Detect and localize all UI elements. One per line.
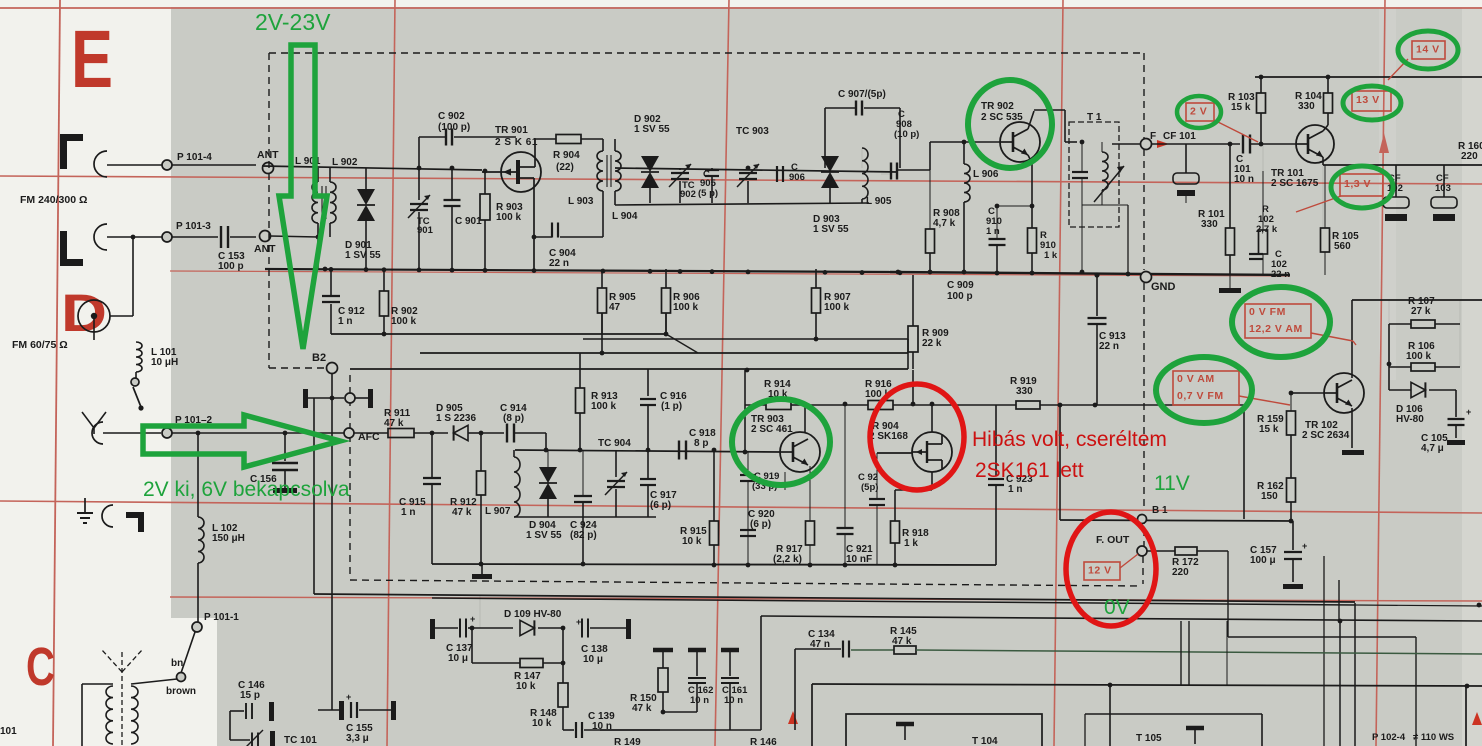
svg-text:12 V: 12 V (1088, 564, 1112, 576)
svg-text:330: 330 (1298, 101, 1315, 112)
svg-text:15 k: 15 k (1259, 424, 1279, 435)
svg-text:+: + (1302, 541, 1307, 551)
svg-text:brown: brown (166, 686, 196, 697)
svg-text:100 μ: 100 μ (1250, 555, 1276, 566)
svg-text:+: + (576, 617, 581, 627)
svg-text:2 V: 2 V (1190, 105, 1207, 117)
svg-text:(6 p): (6 p) (750, 519, 771, 530)
svg-text:220: 220 (1461, 151, 1478, 162)
svg-text:+: + (1466, 407, 1471, 417)
svg-text:10 n: 10 n (1234, 174, 1254, 185)
svg-text:C 907/(5p): C 907/(5p) (838, 89, 886, 100)
svg-text:P 101-3: P 101-3 (176, 221, 211, 232)
svg-text:P 101-4: P 101-4 (177, 152, 212, 163)
svg-text:902: 902 (680, 189, 696, 200)
svg-text:T 104: T 104 (972, 736, 998, 746)
svg-text:2 SC 1675: 2 SC 1675 (1271, 178, 1319, 189)
svg-text:(100 p): (100 p) (438, 122, 470, 133)
svg-text:10 k: 10 k (682, 536, 702, 547)
svg-text:4,7 k: 4,7 k (933, 218, 956, 229)
svg-text:100 k: 100 k (391, 316, 416, 327)
svg-text:906: 906 (789, 172, 805, 183)
svg-text:B2: B2 (312, 352, 326, 364)
svg-text:1 k: 1 k (1044, 250, 1058, 261)
svg-text:100 p: 100 p (218, 261, 244, 272)
svg-text:FM 240/300 Ω: FM 240/300 Ω (20, 194, 87, 206)
svg-text:901: 901 (417, 225, 434, 236)
svg-text:E: E (71, 14, 113, 105)
svg-text:1 n: 1 n (338, 316, 352, 327)
svg-text:ANT: ANT (254, 243, 276, 255)
svg-text:100 k: 100 k (673, 302, 698, 313)
svg-text:bn: bn (171, 658, 183, 669)
svg-text:12,2 V AM: 12,2 V AM (1249, 323, 1303, 335)
svg-text:D 109 HV-80: D 109 HV-80 (504, 609, 562, 620)
svg-text:(5 p): (5 p) (698, 188, 718, 199)
svg-text:1 SV 55: 1 SV 55 (813, 224, 849, 235)
svg-text:0 V FM: 0 V FM (1249, 306, 1286, 318)
svg-text:2V ki, 6V bekapcsolva: 2V ki, 6V bekapcsolva (143, 478, 350, 501)
svg-text:100 k: 100 k (1406, 351, 1431, 362)
svg-text:1 S 2236: 1 S 2236 (436, 413, 476, 424)
svg-text:TC 101: TC 101 (284, 735, 317, 746)
svg-text:P 101-1: P 101-1 (204, 612, 239, 623)
svg-text:47 k: 47 k (892, 636, 912, 647)
svg-text:10 k: 10 k (532, 718, 552, 729)
svg-text:47 k: 47 k (632, 703, 652, 714)
svg-text:47 k: 47 k (384, 418, 404, 429)
svg-text:2SK161 lett: 2SK161 lett (975, 459, 1084, 482)
svg-text:2 SC 535: 2 SC 535 (981, 112, 1023, 123)
svg-text:L 905: L 905 (866, 196, 892, 207)
svg-text:R 146: R 146 (750, 737, 777, 746)
svg-text:10 n: 10 n (690, 695, 709, 706)
svg-text:+: + (470, 614, 475, 624)
svg-text:1 n: 1 n (986, 226, 1000, 237)
svg-text:1 SV 55: 1 SV 55 (634, 124, 670, 135)
svg-text:22 n: 22 n (1271, 269, 1290, 280)
svg-text:0,7 V FM: 0,7 V FM (1177, 390, 1224, 402)
svg-text:10 μ: 10 μ (448, 653, 468, 664)
svg-text:C 909: C 909 (947, 280, 974, 291)
svg-text:B 1: B 1 (1152, 505, 1168, 516)
svg-text:150: 150 (1261, 491, 1278, 502)
svg-text:(5p): (5p) (861, 482, 878, 493)
svg-text:1 SV 55: 1 SV 55 (345, 250, 381, 261)
svg-text:2V-23V: 2V-23V (255, 9, 331, 35)
svg-text:15 p: 15 p (240, 690, 260, 701)
svg-text:100 k: 100 k (591, 401, 616, 412)
svg-text:P 102-4: P 102-4 (1372, 732, 1406, 743)
svg-text:330: 330 (1016, 386, 1033, 397)
svg-text:L 906: L 906 (973, 169, 999, 180)
svg-text:22 n: 22 n (1099, 341, 1119, 352)
svg-text:Hibás volt, cseréltem: Hibás volt, cseréltem (972, 428, 1167, 451)
svg-text:27 k: 27 k (1411, 306, 1431, 317)
svg-text:T 105: T 105 (1136, 733, 1162, 744)
svg-text:47 k: 47 k (452, 507, 472, 518)
svg-text:TC 904: TC 904 (598, 438, 631, 449)
svg-text:100 p: 100 p (947, 291, 973, 302)
svg-text:10 k: 10 k (516, 681, 536, 692)
svg-text:150 μH: 150 μH (212, 533, 245, 544)
svg-text:HV-80: HV-80 (1396, 414, 1424, 425)
svg-text:1,3 V: 1,3 V (1344, 178, 1371, 190)
svg-text:22 n: 22 n (549, 258, 569, 269)
svg-text:GND: GND (1151, 281, 1176, 293)
svg-text:R 149: R 149 (614, 737, 641, 746)
svg-text:1 n: 1 n (1008, 484, 1022, 495)
svg-text:13 V: 13 V (1356, 94, 1380, 106)
svg-text:(6 p): (6 p) (650, 500, 671, 511)
svg-text:22 k: 22 k (922, 338, 942, 349)
svg-text:11V: 11V (1154, 472, 1190, 495)
svg-text:2 SC 2634: 2 SC 2634 (1302, 430, 1350, 441)
svg-text:TR 902: TR 902 (981, 101, 1014, 112)
svg-text:103: 103 (1435, 183, 1451, 194)
svg-text:10 μ: 10 μ (583, 654, 603, 665)
svg-text:C: C (703, 169, 710, 180)
svg-text:L 907: L 907 (485, 506, 511, 517)
svg-text:10 μH: 10 μH (151, 357, 178, 368)
svg-text:100 k: 100 k (824, 302, 849, 313)
svg-text:220: 220 (1172, 567, 1189, 578)
svg-text:(22): (22) (556, 162, 574, 173)
svg-text:CF 101: CF 101 (1163, 131, 1196, 142)
svg-text:F: F (1150, 131, 1156, 142)
svg-text:≠ 110 WS: ≠ 110 WS (1413, 732, 1454, 743)
svg-text:47: 47 (609, 302, 621, 313)
svg-text:C 902: C 902 (438, 111, 465, 122)
svg-text:2 S K 61: 2 S K 61 (495, 137, 538, 148)
svg-text:TC 903: TC 903 (736, 126, 769, 137)
svg-text:1 k: 1 k (904, 538, 918, 549)
svg-text:(2,2 k): (2,2 k) (773, 554, 802, 565)
svg-text:0V: 0V (1104, 596, 1130, 619)
svg-text:(10 p): (10 p) (894, 129, 919, 140)
svg-text:C: C (26, 637, 55, 697)
svg-text:D: D (61, 284, 107, 343)
svg-text:0 V AM: 0 V AM (1177, 373, 1215, 385)
svg-text:101: 101 (0, 726, 17, 737)
svg-text:4,7 μ: 4,7 μ (1421, 443, 1444, 454)
svg-text:L 902: L 902 (332, 157, 358, 168)
svg-text:FM 60/75 Ω: FM 60/75 Ω (12, 339, 68, 351)
svg-text:10 n: 10 n (724, 695, 743, 706)
svg-text:2 SK168: 2 SK168 (869, 431, 908, 442)
svg-text:330: 330 (1201, 219, 1218, 230)
svg-text:(1 p): (1 p) (661, 401, 682, 412)
svg-text:F. OUT: F. OUT (1096, 534, 1130, 546)
svg-text:L 904: L 904 (612, 211, 638, 222)
svg-text:+: + (346, 692, 351, 702)
svg-text:1 SV 55: 1 SV 55 (526, 530, 562, 541)
svg-text:3,3 μ: 3,3 μ (346, 733, 369, 744)
svg-text:L 903: L 903 (568, 196, 594, 207)
svg-text:100 k: 100 k (496, 212, 521, 223)
svg-text:2,7 k: 2,7 k (1256, 224, 1278, 235)
svg-text:2 SC 461: 2 SC 461 (751, 424, 793, 435)
svg-text:R 904: R 904 (553, 150, 580, 161)
svg-text:14 V: 14 V (1416, 43, 1440, 55)
svg-text:T 1: T 1 (1087, 112, 1102, 123)
svg-text:8 p: 8 p (694, 438, 708, 449)
svg-text:ANT: ANT (257, 149, 279, 161)
svg-text:560: 560 (1334, 241, 1351, 252)
svg-text:1 n: 1 n (401, 507, 415, 518)
svg-text:(8 p): (8 p) (503, 413, 524, 424)
svg-text:TR 901: TR 901 (495, 125, 528, 136)
svg-text:C 901: C 901 (455, 216, 482, 227)
svg-text:15 k: 15 k (1231, 102, 1251, 113)
svg-text:10 nF: 10 nF (846, 554, 872, 565)
svg-text:47 n: 47 n (810, 639, 830, 650)
